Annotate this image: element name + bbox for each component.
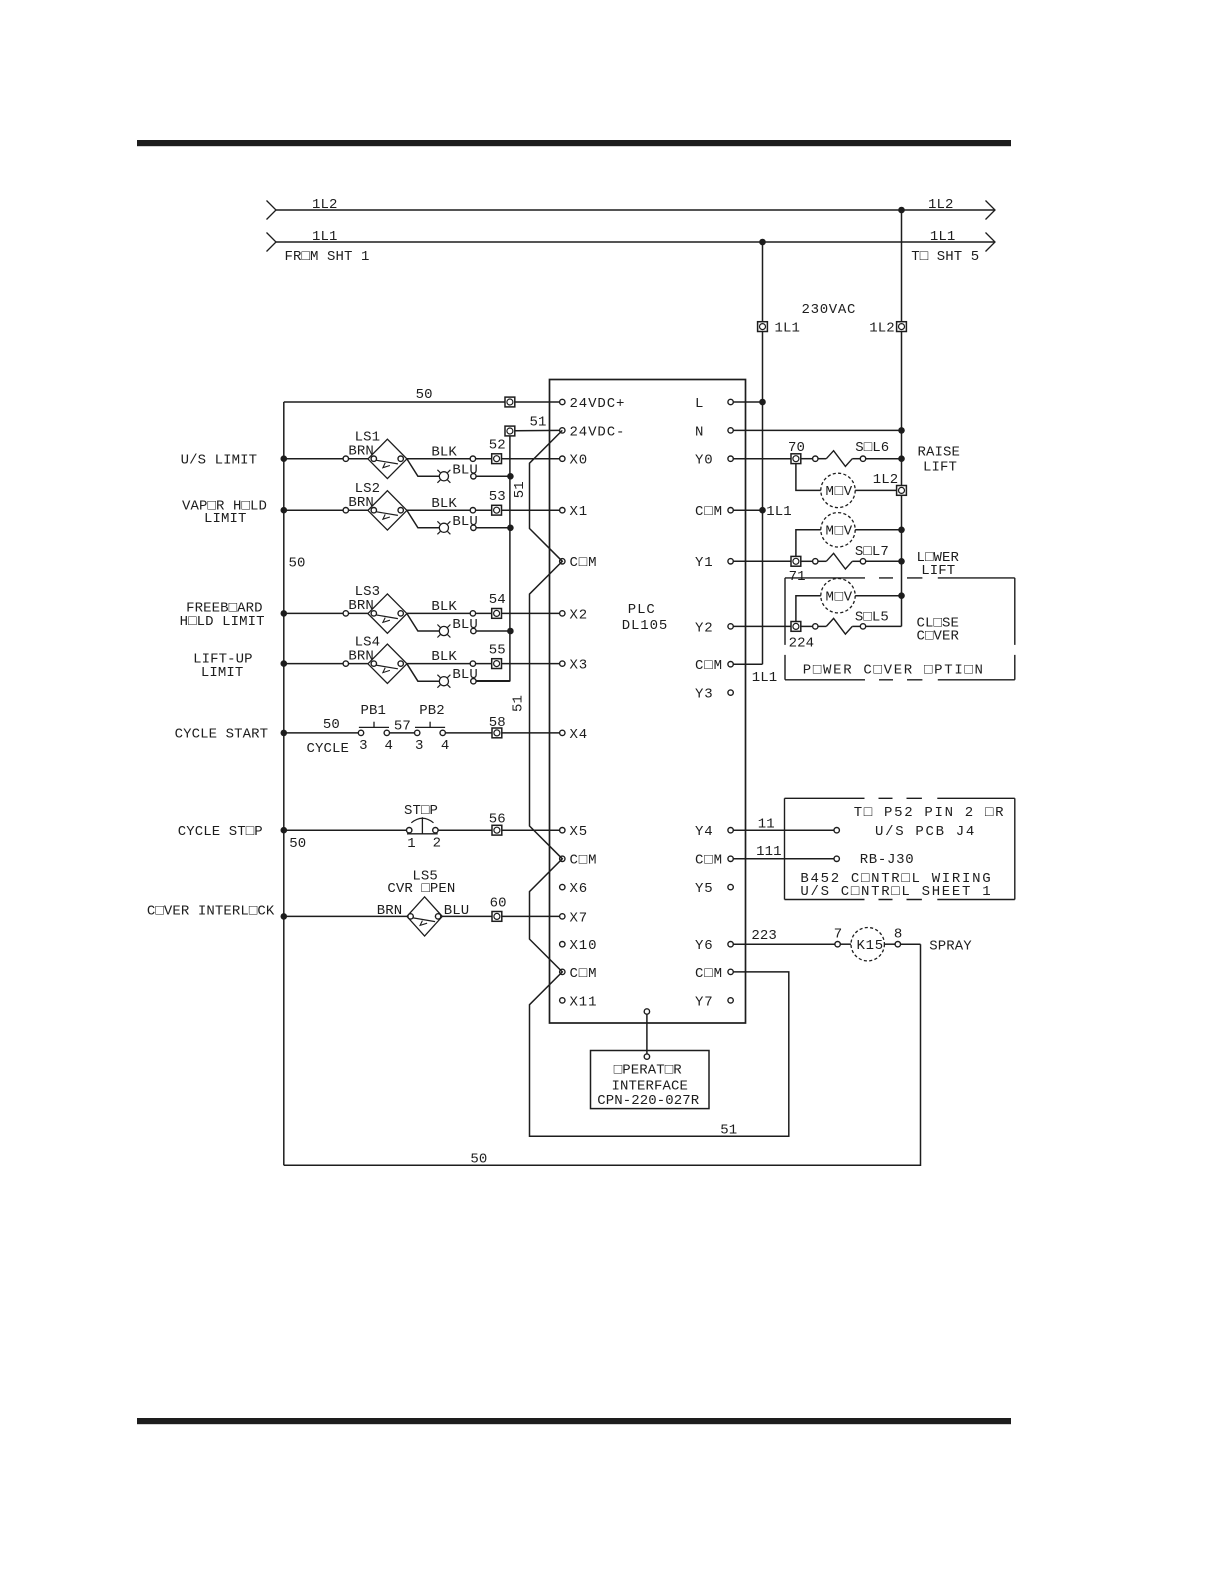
wire LS2 to switch (349, 509, 368, 511)
svg-text:70: 70 (788, 440, 805, 456)
svg-text:50: 50 (323, 717, 340, 733)
label terminal 70 (788, 440, 805, 456)
wire N to 1L2 (733, 429, 901, 431)
wire MOV2 right leg (855, 529, 901, 531)
label BRN LS1 (348, 443, 374, 459)
svg-text:X0: X0 (570, 453, 589, 469)
label B452 CONTROL WIRING (800, 871, 992, 887)
PLC pin Y6 (right 11) (695, 938, 733, 954)
svg-text:BRN: BRN (348, 598, 374, 614)
wire COM to RB-J30 (733, 858, 834, 860)
wire LS3 to terminal 54 (476, 612, 560, 614)
PLC pin COM (right 3) (695, 504, 733, 520)
label terminal 52 (489, 437, 506, 453)
label terminal 54 (489, 592, 506, 608)
terminal circle BLU LS1 (471, 474, 476, 479)
wire Y1 to terminal 71 (733, 560, 791, 562)
varistor MOV1 (821, 473, 855, 507)
terminal circle BLU LS3 (471, 628, 476, 633)
svg-text:□PERAT□R: □PERAT□R (614, 1063, 683, 1079)
label CYCLE START (175, 727, 269, 743)
label CYCLE (307, 741, 350, 757)
label wire 51 rotated lower (511, 695, 527, 712)
label wire 223 (751, 928, 777, 944)
svg-text:LIMIT: LIMIT (204, 511, 247, 527)
svg-text:51: 51 (512, 481, 528, 498)
svg-text:Y1: Y1 (695, 555, 714, 571)
svg-text:24VDC+: 24VDC+ (570, 396, 626, 412)
svg-text:51: 51 (530, 414, 547, 430)
label K15 pin 7 (834, 927, 843, 943)
arrow 1L2 left (267, 201, 277, 220)
terminal circle K15 pin8 (895, 942, 900, 947)
wire LS2 BLU branch (407, 510, 439, 527)
label wire 50 mid (289, 556, 306, 572)
svg-text:3: 3 (359, 738, 368, 754)
relay coil K15 (851, 928, 884, 961)
label PB1 pin 4 (385, 738, 394, 754)
PLC pin X1 (left 3) (560, 504, 589, 520)
label terminal 1L2 (869, 321, 895, 337)
label BLK LS3 (431, 599, 457, 615)
wire SOL5 lead right (852, 625, 860, 627)
stop button mushroom head (411, 818, 433, 823)
svg-text:M□V: M□V (826, 524, 853, 540)
svg-text:N: N (695, 424, 704, 440)
svg-text:X10: X10 (570, 938, 598, 954)
junction dot rail CYCLE STOP (281, 827, 288, 834)
limit switch LS3 contact circles (371, 611, 403, 616)
junction dot SOL7 1L2 (898, 558, 905, 565)
arrow 1L1 left (267, 233, 277, 252)
label BRN LS2 (348, 495, 374, 511)
wire Y6 to K15 (733, 943, 835, 945)
wire LS4 to terminal 55 (476, 663, 560, 665)
label wire 51 loop (720, 1123, 737, 1139)
limit switch LS4 actuator arm (376, 665, 398, 673)
terminal circle BLK LS4 (470, 661, 475, 666)
terminal 53 (492, 505, 502, 515)
terminal 55 (492, 659, 502, 669)
wire bus 1L2 (276, 209, 995, 211)
limit switch LS2 contact circles (371, 508, 403, 513)
svg-text:C□M: C□M (695, 966, 723, 982)
wire 1L1 vertical feeder (762, 242, 764, 664)
svg-text:1L1: 1L1 (766, 504, 792, 520)
svg-text:RB-J30: RB-J30 (860, 852, 915, 868)
label BRN LS4 (348, 648, 374, 664)
junction dot rail row LS3 (281, 610, 288, 617)
terminal circle BLK LS1 (470, 456, 475, 461)
label wire 111 (756, 844, 782, 860)
wire LS2 BLU to bus (476, 527, 510, 529)
svg-text:C□M: C□M (570, 966, 598, 982)
label 230VAC (802, 302, 857, 318)
label BLU LS3 (452, 617, 478, 633)
svg-text:52: 52 (489, 437, 506, 453)
limit switch LS1 actuator arm (376, 460, 398, 468)
label PB2 (419, 703, 445, 719)
wire LS5 to terminal 60 (442, 915, 559, 917)
wire STOP to terminal 56 (438, 829, 560, 831)
wire MOV1 left leg (796, 464, 821, 491)
terminal circle SOL7 left (813, 559, 818, 564)
junction dot 51 bus LS2 (507, 525, 514, 532)
label U/S PCB J4 (875, 824, 976, 840)
P52 info box (785, 798, 1015, 899)
label BRN LS3 (348, 598, 374, 614)
label TO P52 PIN 2 OR (854, 805, 1006, 821)
terminal circle SOL5 left (813, 624, 818, 629)
limit switch LS5 actuator arm (413, 918, 435, 926)
terminal circle BRN LS3 (343, 611, 348, 616)
PLC pin COM (right 12) (695, 966, 733, 982)
label CVR OPEN (387, 881, 455, 897)
svg-text:X5: X5 (570, 824, 589, 840)
svg-text:X11: X11 (570, 994, 598, 1010)
PLC pin X5 (left 8) (560, 824, 589, 840)
lamp LS4 BLU (437, 675, 450, 688)
terminal 56 (492, 825, 502, 835)
label VAPOR HOLD (182, 498, 267, 514)
label DL105 (622, 618, 669, 634)
svg-text:T□ P52 PIN 2 □R: T□ P52 PIN 2 □R (854, 805, 1006, 821)
arrow 1L1 right (986, 233, 996, 252)
label BRN LS5 (377, 903, 403, 919)
svg-text:1L2: 1L2 (312, 197, 338, 213)
wire LS2 to terminal 53 (476, 509, 560, 511)
svg-text:1L1: 1L1 (312, 229, 338, 245)
varistor MOV3 (821, 579, 855, 613)
svg-text:53: 53 (489, 489, 506, 505)
terminal 50 (505, 397, 515, 407)
PLC pin N (right 1) (695, 424, 733, 440)
svg-text:X4: X4 (570, 727, 589, 743)
label CYCLE STOP (178, 824, 263, 840)
wire PB1 to PB2 (390, 732, 415, 734)
wire 224 to SOL5 (801, 625, 813, 627)
PLC pin X4 (left 7) (560, 727, 589, 743)
svg-text:Y7: Y7 (695, 994, 714, 1010)
terminal 1L1 (758, 322, 768, 332)
svg-text:Y5: Y5 (695, 881, 714, 897)
lamp LS1 BLU (437, 470, 450, 483)
PLC pin X2 (left 5) (560, 607, 589, 623)
label K15 pin 8 (894, 927, 903, 943)
svg-text:PB2: PB2 (419, 703, 445, 719)
svg-text:224: 224 (789, 636, 815, 652)
svg-text:51: 51 (511, 695, 527, 712)
label BLK LS4 (431, 649, 457, 665)
svg-text:Y4: Y4 (695, 824, 714, 840)
label LS4 (355, 634, 381, 650)
svg-text:223: 223 (751, 928, 777, 944)
PLC pin Y3 (right 7) (695, 687, 733, 703)
label RB-J30 (860, 852, 915, 868)
junction dot MOV2 1L2 (898, 527, 905, 534)
wire LS4 BLU branch (407, 664, 439, 681)
svg-text:1L2: 1L2 (873, 472, 899, 488)
svg-text:S□L7: S□L7 (855, 544, 889, 560)
svg-text:C□M: C□M (570, 555, 598, 571)
svg-text:58: 58 (489, 715, 506, 731)
wire SOL6 lead right (852, 458, 860, 460)
label U/S CONTROL SHEET 1 (800, 884, 992, 900)
junction dot bus 1L1 (759, 239, 766, 246)
wire LS3 BLU branch (407, 614, 439, 631)
label LOWER (917, 550, 960, 566)
solenoid SOL7 (826, 553, 852, 569)
wire SOL5 to 1L2 (866, 625, 902, 627)
wire 71 to SOL7 (801, 560, 813, 562)
wire L to 1L1 (733, 401, 762, 403)
svg-text:X1: X1 (570, 504, 589, 520)
svg-text:U/S LIMIT: U/S LIMIT (181, 453, 258, 469)
label wire 50 low (289, 836, 306, 852)
label LS5 (412, 868, 438, 884)
stop button stem (421, 817, 423, 834)
svg-text:T□ SHT 5: T□ SHT 5 (911, 249, 979, 265)
PLC pin X7 (left 11) (560, 910, 589, 926)
wire LS1 BLU branch (407, 459, 439, 476)
svg-text:50: 50 (416, 387, 433, 403)
wire 70 to SOL6 (801, 458, 813, 460)
svg-text:1L2: 1L2 (869, 321, 895, 337)
label wire 11 (758, 817, 775, 833)
PLC pin COM (left 9) (560, 853, 598, 869)
PLC pin 24VDC- (left 1) (560, 424, 626, 440)
lamp LS2 BLU (437, 521, 450, 534)
limit switch LS1 contact circles (371, 456, 403, 461)
svg-text:LIFT: LIFT (923, 460, 957, 476)
svg-text:H□LD LIMIT: H□LD LIMIT (180, 614, 265, 630)
wire LS1 to terminal 52 (476, 458, 560, 460)
label STOP pin 2 (433, 836, 442, 852)
wire SOL7 lead right (852, 560, 860, 562)
terminal circle BLK LS2 (470, 508, 475, 513)
label 1L1 right (930, 229, 956, 245)
svg-text:51: 51 (720, 1123, 737, 1139)
wire cycle stop to STOP (284, 829, 407, 831)
wire MOV3 left leg (796, 596, 821, 622)
label PB2 pin 4 (441, 738, 450, 754)
label terminal 1L1 (775, 321, 801, 337)
wire LS3 BLK segment (407, 612, 470, 614)
svg-text:60: 60 (490, 896, 507, 912)
wire MOV2 left leg (796, 530, 821, 557)
label 1L1 lower (752, 670, 778, 686)
terminal circle BRN LS1 (343, 456, 348, 461)
PLC pin L (right 0) (695, 396, 733, 412)
wire COM to 1L1 (Y0 group) (733, 509, 762, 511)
svg-text:X6: X6 (570, 881, 589, 897)
label 1L1 left (312, 229, 338, 245)
svg-text:CYCLE ST□P: CYCLE ST□P (178, 824, 263, 840)
wire SOL6 lead left (818, 458, 826, 460)
label COVER INTERLOCK (147, 903, 275, 919)
PLC pin X11 (left 14) (560, 994, 598, 1010)
svg-text:RAISE: RAISE (918, 445, 961, 461)
label wire 57 (394, 718, 411, 734)
PLC pin Y4 (right 8) (695, 824, 733, 840)
junction dot N 1L2 (898, 427, 905, 434)
operator interface box (591, 1051, 710, 1109)
limit switch LS3 actuator arm (376, 615, 398, 623)
terminal 52 (492, 454, 502, 464)
svg-text:BRN: BRN (348, 648, 374, 664)
svg-text:BRN: BRN (348, 495, 374, 511)
svg-text:3: 3 (415, 738, 424, 754)
svg-text:K15: K15 (857, 938, 884, 954)
PLC pin COM (right 9) (695, 853, 733, 869)
pushbutton PB2 contacts (415, 730, 446, 735)
lamp LS3 BLU (437, 625, 450, 638)
svg-text:54: 54 (489, 592, 506, 608)
svg-text:BLK: BLK (431, 496, 457, 512)
terminal circle P52 (834, 828, 839, 833)
svg-text:S□L5: S□L5 (855, 609, 889, 625)
PLC pin COM (left 4) (560, 555, 598, 571)
terminal 58 (492, 728, 502, 738)
label STOP (404, 803, 438, 819)
label INTERFACE (612, 1079, 689, 1095)
svg-text:4: 4 (385, 738, 394, 754)
wire SOL6 to 1L2 (866, 458, 902, 460)
terminal circle BLU LS2 (471, 525, 476, 530)
svg-text:X7: X7 (570, 910, 589, 926)
svg-text:C□VER: C□VER (917, 628, 960, 644)
svg-text:1L2: 1L2 (928, 197, 954, 213)
svg-text:8: 8 (894, 927, 903, 943)
svg-text:P□WER C□VER □PTI□N: P□WER C□VER □PTI□N (803, 663, 985, 679)
wire PB2 to terminal 58 (445, 732, 559, 734)
svg-text:M□V: M□V (826, 484, 853, 500)
limit switch LS3 body (368, 594, 407, 633)
wire rail 50 left vertical (283, 402, 285, 1165)
svg-text:1L1: 1L1 (775, 321, 801, 337)
wire cover interlock BRN (284, 915, 407, 917)
svg-text:U/S C□NTR□L SHEET 1: U/S C□NTR□L SHEET 1 (800, 884, 992, 900)
wire pin7 to K15 (840, 943, 851, 945)
PLC pin COM (right 6) (695, 658, 733, 674)
svg-text:1: 1 (407, 836, 416, 852)
svg-text:CYCLE START: CYCLE START (175, 727, 269, 743)
label LS1 (355, 430, 381, 446)
label BLK LS1 (431, 444, 457, 460)
limit switch LS4 contact circles (371, 661, 403, 666)
junction dot bus 1L2 (898, 207, 905, 214)
limit switch LS2 actuator arm (376, 512, 398, 520)
svg-text:BLK: BLK (431, 649, 457, 665)
junction dot 51 bus LS3 (507, 628, 514, 635)
wire COM to 1L1 (Y2 group) (733, 663, 762, 665)
label PLC (628, 602, 656, 618)
pushbutton PB2 actuator (415, 722, 445, 728)
label wire 51 rotated upper (512, 481, 528, 498)
junction dot MOV3 1L2 (898, 592, 905, 599)
wire MOV1 right leg (855, 489, 896, 491)
page border bar bottom (137, 1418, 1011, 1424)
label PB2 pin 3 (415, 738, 424, 754)
svg-text:X3: X3 (570, 658, 589, 674)
svg-text:Y0: Y0 (695, 453, 714, 469)
label terminal 55 (489, 642, 506, 658)
terminal circle RB-J30 (834, 856, 839, 861)
wire LS3 BLU to bus (476, 630, 510, 632)
terminal 60 (492, 912, 502, 922)
label CPN-220-027R (597, 1093, 700, 1109)
svg-text:PB1: PB1 (361, 703, 387, 719)
label LS3 (355, 584, 381, 600)
label wire 51 top (530, 414, 547, 430)
label wire 50 bottom (470, 1152, 487, 1168)
label terminal 53 (489, 489, 506, 505)
label BLK LS2 (431, 496, 457, 512)
wire Y4 to P52 (733, 829, 834, 831)
label FREEBOARD (186, 600, 263, 616)
pushbutton PB1 actuator (359, 722, 389, 728)
label LS2 (355, 481, 381, 497)
label POWER COVER OPTION (803, 663, 985, 679)
stop button contacts (407, 828, 439, 833)
label CLOSE (917, 615, 960, 631)
label PB1 pin 3 (359, 738, 368, 754)
label SOL5 (855, 609, 889, 625)
PLC pin Y5 (right 10) (695, 881, 733, 897)
wire LS2 BRN segment (284, 509, 343, 511)
label FREEBOARD HOLD LIMIT (180, 614, 265, 630)
label BLU LS5 (444, 903, 470, 919)
terminal 71 (791, 556, 801, 566)
svg-text:CYCLE: CYCLE (307, 741, 350, 757)
label LIFT-UP (193, 652, 253, 668)
svg-text:1L1: 1L1 (752, 670, 778, 686)
limit switch LS5 body (407, 897, 442, 936)
wire LS4 to switch (349, 663, 368, 665)
wire MOV3 right leg (855, 595, 901, 597)
label SOL6 (855, 440, 889, 456)
wire K15 to pin8 (884, 943, 895, 945)
svg-text:U/S PCB J4: U/S PCB J4 (875, 824, 976, 840)
terminal circle BRN LS4 (343, 661, 348, 666)
label wire 50 cycle (323, 717, 340, 733)
label U/S LIMIT (181, 453, 258, 469)
terminal circle SOL6 right (860, 456, 865, 461)
label CLOSE COVER (917, 628, 960, 644)
svg-text:FR□M SHT 1: FR□M SHT 1 (285, 249, 370, 265)
label terminal 58 (489, 715, 506, 731)
label VAPOR HOLD LIMIT (204, 511, 247, 527)
wire LS3 to switch (349, 612, 368, 614)
svg-text:C□VER INTERL□CK: C□VER INTERL□CK (147, 903, 275, 919)
PLC pin X0 (left 2) (560, 453, 589, 469)
varistor MOV2 (821, 513, 855, 547)
svg-text:230VAC: 230VAC (802, 302, 857, 318)
wire SOL5 lead left (818, 625, 826, 627)
label terminal 71 (789, 569, 806, 585)
svg-text:BLK: BLK (431, 444, 457, 460)
svg-text:4: 4 (441, 738, 450, 754)
label 1L2 left (312, 197, 338, 213)
PLC pin Y7 (right 13) (695, 994, 733, 1010)
wire bus 1L1 (276, 241, 995, 243)
junction dot L 1L1 (759, 399, 766, 406)
limit switch LS4 body (368, 644, 407, 683)
PLC pin COM (left 13) (560, 966, 598, 982)
solenoid SOL5 (826, 618, 852, 634)
svg-text:L: L (695, 396, 704, 412)
label OPERATOR (614, 1063, 683, 1079)
